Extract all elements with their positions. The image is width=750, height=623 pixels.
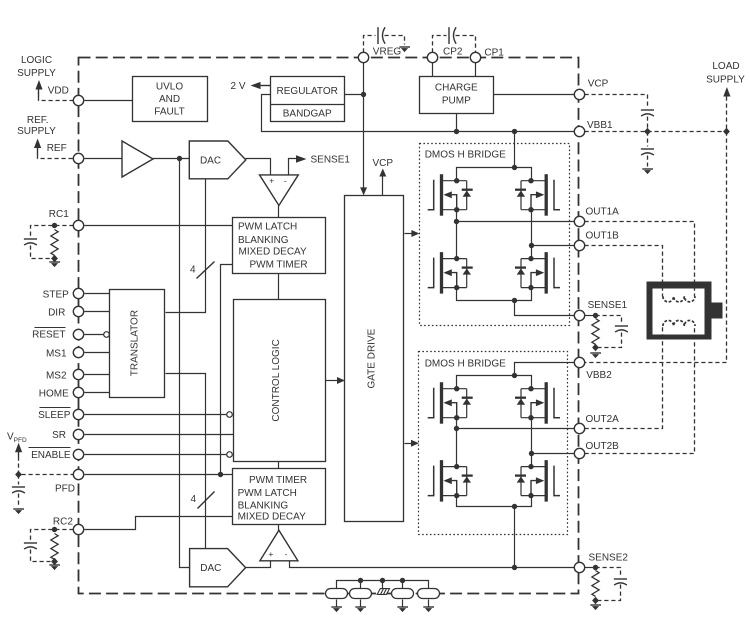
svg-text:+: + bbox=[269, 176, 274, 186]
svg-text:STEP: STEP bbox=[43, 289, 69, 300]
pad GND 3 bbox=[392, 589, 414, 599]
junction PFD branch bbox=[218, 472, 223, 477]
wire control logic to gate drive arrow bbox=[326, 377, 346, 384]
wire RC2 cap to ground dashed bbox=[31, 550, 51, 562]
svg-text:PFD: PFD bbox=[55, 484, 75, 495]
svg-text:-: - bbox=[285, 549, 288, 559]
wire RC1 to PWM latch bbox=[85, 225, 233, 227]
svg-text:FAULT: FAULT bbox=[154, 107, 184, 118]
SENSE2 external resistor bbox=[585, 565, 602, 610]
VCP internal arrow bbox=[379, 169, 386, 196]
exposed pad hatch symbol bbox=[377, 589, 389, 595]
wire RC2 to PWM2 bbox=[85, 517, 233, 530]
svg-text:VREG: VREG bbox=[373, 46, 402, 57]
svg-text:UVLO: UVLO bbox=[156, 82, 183, 93]
svg-text:RC2: RC2 bbox=[53, 517, 73, 528]
pin OUT1A bbox=[574, 216, 584, 226]
wire gate drive to bridge2 arrow bbox=[405, 440, 420, 447]
pin VCP bbox=[574, 89, 584, 99]
wire REF to buffer bbox=[85, 158, 123, 160]
wire VDD external dashed bbox=[39, 97, 74, 101]
capacitor PFD external bbox=[12, 487, 25, 493]
wire VBB2 to bridge2 rail bbox=[515, 363, 575, 376]
pin RC2 bbox=[73, 524, 83, 534]
pin MS2 bbox=[73, 369, 83, 379]
junction RC1 bottom bbox=[51, 255, 58, 262]
pin OUT2A bbox=[574, 423, 584, 433]
block GATE DRIVE bbox=[345, 196, 404, 522]
wire translator bus to DAC1 with width-4 slash bbox=[166, 179, 215, 313]
2V output arrow bbox=[251, 82, 271, 89]
pin VREG bbox=[358, 52, 368, 62]
wire hatch stub bbox=[382, 581, 384, 589]
REF. SUPPLY label bbox=[17, 115, 56, 137]
motor winding top bbox=[663, 296, 695, 302]
svg-text:PWM LATCH: PWM LATCH bbox=[238, 488, 297, 499]
ground VREG cap bbox=[399, 47, 410, 52]
svg-text:OUT1A: OUT1A bbox=[586, 207, 620, 218]
capacitor CP2-CP1 external dashed bbox=[433, 27, 476, 52]
wire MS2 bbox=[85, 374, 110, 376]
svg-text:RESET: RESET bbox=[32, 330, 65, 341]
resistor RC1 external bbox=[51, 230, 58, 256]
svg-text:VCP: VCP bbox=[373, 158, 394, 169]
svg-text:2 V: 2 V bbox=[230, 81, 245, 92]
svg-text:OUT2B: OUT2B bbox=[586, 441, 620, 452]
logic supply arrow bbox=[35, 80, 42, 97]
svg-text:CP2: CP2 bbox=[443, 46, 463, 57]
svg-text:REGULATOR: REGULATOR bbox=[277, 86, 338, 97]
svg-text:SUPPLY: SUPPLY bbox=[706, 75, 745, 86]
capacitor VREG external dashed bbox=[364, 27, 405, 52]
wire cap2 to ground dashed bbox=[647, 156, 649, 167]
wire bridge1 top rail bbox=[457, 168, 532, 181]
wire charge pump to VBB1 rail bbox=[456, 114, 458, 132]
svg-text:-: - bbox=[284, 175, 287, 185]
junction regulator VREG bbox=[361, 92, 366, 97]
junction bridge1 rail bbox=[512, 165, 517, 170]
junction bridge2 rail bbox=[512, 373, 517, 378]
SENSE1 arrow bbox=[296, 155, 307, 163]
node ENABLE label with overline bbox=[29, 448, 71, 461]
block PWM LATCH 1 bbox=[233, 218, 326, 274]
LOAD SUPPLY label bbox=[706, 61, 745, 85]
pin VDD bbox=[73, 95, 83, 105]
wire DAC2 to comparator2 plus bbox=[246, 561, 271, 568]
wire STEP bbox=[85, 293, 110, 295]
ground RC2 bbox=[49, 565, 60, 570]
load supply arrow bbox=[723, 87, 730, 97]
svg-text:PWM TIMER: PWM TIMER bbox=[249, 475, 307, 486]
junction OUT1B bbox=[529, 243, 534, 248]
DMOS H BRIDGE 1 dotted box bbox=[420, 144, 570, 326]
ground RC1 bbox=[49, 262, 60, 267]
pin SENSE1 bbox=[574, 310, 584, 320]
svg-text:HOME: HOME bbox=[39, 388, 69, 399]
wire DIR bbox=[85, 311, 110, 313]
block UVLO AND FAULT bbox=[133, 77, 208, 122]
transistor Q5 bridge2 top-left bbox=[428, 382, 473, 424]
wire OUT2A bbox=[457, 428, 575, 430]
pin OUT2B bbox=[574, 448, 584, 458]
pin MS1 bbox=[73, 347, 83, 357]
wire VBB1 to cap2 dashed bbox=[647, 132, 649, 147]
svg-text:REF: REF bbox=[47, 143, 67, 154]
pin ENABLE bbox=[73, 449, 83, 459]
junction SENSE2 line bbox=[512, 565, 517, 570]
junction bridge2 sense bbox=[512, 504, 517, 509]
wire gate drive to bridge1 arrow bbox=[405, 230, 420, 237]
wire VPFD cap branch dashed bbox=[18, 475, 20, 485]
resistor RC2 external bbox=[51, 534, 58, 560]
wire RC1 external dashed bbox=[31, 226, 74, 237]
transistor Q2 bridge1 top-right bbox=[515, 174, 560, 216]
wire control logic to PWM2 bbox=[278, 462, 280, 469]
svg-text:OUT2A: OUT2A bbox=[586, 414, 620, 425]
wire CP1 to charge pump bbox=[475, 63, 477, 77]
comparator 2 bbox=[260, 530, 298, 561]
wire bridge2 left leg bbox=[456, 418, 458, 467]
svg-text:MS1: MS1 bbox=[46, 348, 67, 359]
transistor Q3 bridge1 bottom-left bbox=[428, 252, 473, 294]
wire bridge2 top rail bbox=[457, 376, 532, 389]
capacitor RC1 external bbox=[24, 239, 37, 245]
svg-text:LOAD: LOAD bbox=[712, 61, 739, 72]
pin CP2 bbox=[427, 52, 437, 62]
junction VBB1 caps bbox=[644, 128, 651, 135]
wire SENSE1 internal stub bbox=[289, 159, 297, 175]
IC boundary dashed border bbox=[79, 58, 579, 594]
pin OUT1B bbox=[574, 240, 584, 250]
wire CP2 to charge pump bbox=[432, 63, 434, 77]
block CHARGE PUMP bbox=[420, 77, 494, 114]
DAC U1 top bbox=[189, 141, 246, 179]
svg-text:PUMP: PUMP bbox=[442, 96, 471, 107]
svg-text:4: 4 bbox=[190, 264, 196, 275]
wire comparator2 minus to SENSE2 bbox=[290, 561, 575, 568]
ground pad2 bbox=[355, 600, 366, 613]
junction VBB1 bridge feed bbox=[512, 129, 517, 134]
wire RESET with inverter bubble bbox=[85, 332, 110, 338]
wire regulator to VREG line bbox=[345, 94, 364, 96]
wire PWM1 to PFD branch bbox=[221, 265, 233, 475]
ref supply arrow bbox=[34, 139, 41, 155]
ground VBB1 cap bbox=[642, 169, 653, 174]
DMOS H BRIDGE 2 dotted box bbox=[419, 352, 568, 535]
svg-text:RC1: RC1 bbox=[49, 209, 69, 220]
svg-text:MIXED DECAY: MIXED DECAY bbox=[239, 247, 307, 258]
pad GND 4 bbox=[418, 589, 440, 599]
svg-text:MIXED DECAY: MIXED DECAY bbox=[238, 511, 306, 522]
svg-text:SR: SR bbox=[52, 430, 66, 441]
svg-text:DMOS H BRIDGE: DMOS H BRIDGE bbox=[425, 359, 506, 370]
pad GND 1 bbox=[326, 589, 348, 599]
wire bridge1 bottom rail bbox=[457, 288, 532, 301]
transistor Q1 bridge1 top-left bbox=[428, 174, 473, 216]
motor winding bottom bbox=[663, 320, 695, 326]
svg-text:BLANKING: BLANKING bbox=[238, 501, 289, 512]
wire OUT1A bbox=[457, 221, 575, 223]
svg-text:BANDGAP: BANDGAP bbox=[283, 109, 332, 120]
capacitor RC2 external bbox=[24, 543, 37, 549]
SENSE2 external capacitor dashed bbox=[596, 568, 628, 601]
junction bridge1 sense bbox=[512, 298, 517, 303]
wire bridge1 to SENSE1 bbox=[515, 301, 575, 316]
junction RC2 bottom bbox=[51, 558, 58, 565]
wire VBB1 external dashed bbox=[585, 131, 727, 133]
pin CP1 bbox=[470, 52, 480, 62]
svg-text:SENSE1: SENSE1 bbox=[311, 155, 351, 166]
block REGULATOR / BANDGAP bbox=[271, 77, 345, 122]
svg-text:GATE DRIVE: GATE DRIVE bbox=[367, 328, 378, 388]
wire OUT2B bbox=[532, 453, 575, 455]
wire charge pump to VCP pin bbox=[494, 94, 575, 96]
pin REF bbox=[73, 153, 83, 163]
svg-text:SENSE1: SENSE1 bbox=[588, 300, 628, 311]
junction bus pad2 bbox=[358, 578, 363, 583]
transistor Q4 bridge1 bottom-right bbox=[515, 252, 560, 294]
svg-text:VBB2: VBB2 bbox=[586, 370, 612, 381]
wire ground bus bbox=[337, 581, 429, 589]
svg-text:SUPPLY: SUPPLY bbox=[17, 68, 56, 79]
wire bridge1 left leg bbox=[456, 210, 458, 259]
wire VDD to UVLO bbox=[85, 100, 133, 102]
svg-text:VCP: VCP bbox=[588, 79, 609, 90]
svg-text:ENABLE: ENABLE bbox=[31, 450, 71, 461]
svg-text:VBB1: VBB1 bbox=[587, 120, 613, 131]
pin STEP bbox=[73, 288, 83, 298]
wire REF external dashed bbox=[38, 155, 74, 159]
wire MS1 bbox=[85, 352, 110, 354]
svg-text:DIR: DIR bbox=[48, 308, 65, 319]
wire pad3 stub bbox=[402, 581, 404, 589]
pin RESET bbox=[73, 329, 83, 339]
wire VBB1 internal rail bbox=[262, 95, 575, 132]
wire OUT2B to motor dashed bbox=[585, 327, 695, 454]
pin HOME bbox=[73, 387, 83, 397]
junction VPFD bbox=[15, 471, 22, 478]
capacitor VCP-VBB1 bbox=[641, 110, 654, 116]
wire OUT1A to motor dashed bbox=[585, 222, 695, 297]
wire RC1 cap to ground dashed bbox=[31, 246, 51, 259]
junction REF branch bbox=[177, 156, 182, 161]
wire PWM2 to comparator2 bbox=[278, 525, 280, 531]
wire PFD cap to ground dashed bbox=[18, 494, 20, 508]
svg-text:DAC: DAC bbox=[200, 156, 221, 167]
block TRANSLATOR bbox=[110, 290, 165, 398]
svg-text:SUPPLY: SUPPLY bbox=[17, 126, 56, 137]
wire VREG vertical to gate drive bbox=[360, 63, 367, 196]
pin SLEEP bbox=[73, 409, 83, 419]
wire VPFD to PFD dashed bbox=[19, 457, 74, 475]
ground pad1 bbox=[331, 600, 342, 613]
wire DAC1 to comparator plus bbox=[246, 159, 271, 175]
svg-text:PWM LATCH: PWM LATCH bbox=[238, 222, 297, 233]
svg-text:MS2: MS2 bbox=[46, 371, 67, 382]
SENSE1 external capacitor dashed bbox=[596, 316, 629, 348]
capacitor VBB1-GND bbox=[641, 149, 654, 155]
wire bridge2 bottom rail bbox=[457, 496, 532, 507]
ground pad4 bbox=[423, 600, 434, 613]
wire pad2 stub bbox=[360, 581, 362, 589]
wire bridge1 right leg bbox=[531, 210, 533, 259]
wire OUT2A to motor dashed bbox=[585, 327, 663, 429]
svg-text:SENSE2: SENSE2 bbox=[589, 552, 629, 563]
pin PFD bbox=[73, 469, 83, 479]
svg-text:BLANKING: BLANKING bbox=[238, 235, 289, 246]
svg-text:LOGIC: LOGIC bbox=[21, 55, 52, 66]
pad GND 2 bbox=[350, 589, 372, 599]
ground PFD bbox=[13, 509, 24, 514]
wire bridge2 right leg bbox=[531, 418, 533, 467]
wire SLEEP with bubble bbox=[85, 412, 233, 418]
svg-text:CP1: CP1 bbox=[484, 47, 504, 58]
wire buffer to DAC1 bbox=[153, 158, 190, 160]
comparator 1 bbox=[260, 175, 299, 206]
junction charge pump VBB1 bbox=[454, 129, 459, 134]
junction OUT1A bbox=[454, 219, 459, 224]
block PWM LATCH 2 bbox=[233, 469, 326, 525]
ground pad3 bbox=[397, 600, 408, 613]
wire ENABLE with bubble bbox=[85, 452, 233, 458]
SENSE1 external resistor bbox=[585, 313, 602, 358]
wire OUT1B to motor dashed bbox=[585, 246, 663, 297]
wire RC2 external dashed bbox=[31, 530, 74, 541]
junction RC1 top bbox=[52, 223, 57, 228]
svg-text:VDD: VDD bbox=[48, 86, 69, 97]
svg-text:DAC: DAC bbox=[200, 563, 221, 574]
wire VCP external dashed bbox=[585, 95, 648, 107]
block CONTROL LOGIC bbox=[234, 300, 326, 462]
vpfd supply arrow bbox=[15, 443, 22, 457]
svg-text:AND: AND bbox=[159, 94, 180, 105]
pin RC1 bbox=[73, 220, 83, 230]
junction RC2 top bbox=[52, 527, 57, 532]
junction bus hatch bbox=[380, 578, 385, 583]
LOGIC SUPPLY label bbox=[17, 55, 56, 79]
motor block bbox=[647, 282, 723, 340]
transistor Q7 bridge2 bottom-left bbox=[428, 460, 473, 502]
wire bridge2 to SENSE2 line bbox=[514, 507, 516, 568]
pin DIR bbox=[73, 306, 83, 316]
pin SR bbox=[73, 429, 83, 439]
svg-text:PWM TIMER: PWM TIMER bbox=[250, 260, 308, 271]
pin SENSE2 bbox=[574, 562, 584, 572]
buffer amplifier bbox=[122, 141, 153, 177]
svg-text:OUT1B: OUT1B bbox=[586, 231, 620, 242]
pin VBB2 bbox=[574, 357, 584, 367]
junction OUT2A bbox=[454, 426, 459, 431]
wire cap to VBB1 node dashed bbox=[647, 117, 649, 132]
svg-text:REF.: REF. bbox=[27, 115, 49, 126]
svg-text:+: + bbox=[268, 549, 273, 559]
node RESET label with overline bbox=[32, 328, 65, 341]
wire LOAD SUPPLY to VBB2 dashed bbox=[585, 97, 727, 363]
transistor Q6 bridge2 top-right bbox=[515, 382, 560, 424]
wire VBB1 to bridge1 rail bbox=[514, 132, 516, 168]
junction OUT2B bbox=[529, 451, 534, 456]
svg-text:DMOS H BRIDGE: DMOS H BRIDGE bbox=[425, 150, 506, 161]
wire PFD to PWM2 bbox=[85, 474, 233, 476]
svg-text:4: 4 bbox=[190, 494, 196, 505]
junction load supply VBB1 bbox=[723, 128, 730, 135]
wire translator bus to DAC2 with width-4 slash bbox=[166, 374, 215, 549]
DAC U2 bottom bbox=[190, 549, 246, 587]
wire HOME bbox=[85, 392, 110, 394]
svg-text:SLEEP: SLEEP bbox=[38, 410, 71, 421]
wire OUT1B bbox=[532, 245, 575, 247]
svg-text:CHARGE: CHARGE bbox=[435, 83, 478, 94]
wire PWM1 to control logic bbox=[278, 274, 280, 300]
transistor Q8 bridge2 bottom-right bbox=[515, 460, 560, 502]
svg-text:CONTROL LOGIC: CONTROL LOGIC bbox=[271, 339, 282, 421]
svg-text:TRANSLATOR: TRANSLATOR bbox=[130, 310, 141, 376]
junction bus pad3 bbox=[400, 578, 405, 583]
wire comparator1 to PWM latch bbox=[278, 206, 280, 218]
pin VBB1 bbox=[574, 126, 584, 136]
node SLEEP label with overline bbox=[38, 408, 71, 421]
wire SR bbox=[85, 434, 234, 436]
wire REF vertical to DAC2 bbox=[180, 159, 190, 568]
